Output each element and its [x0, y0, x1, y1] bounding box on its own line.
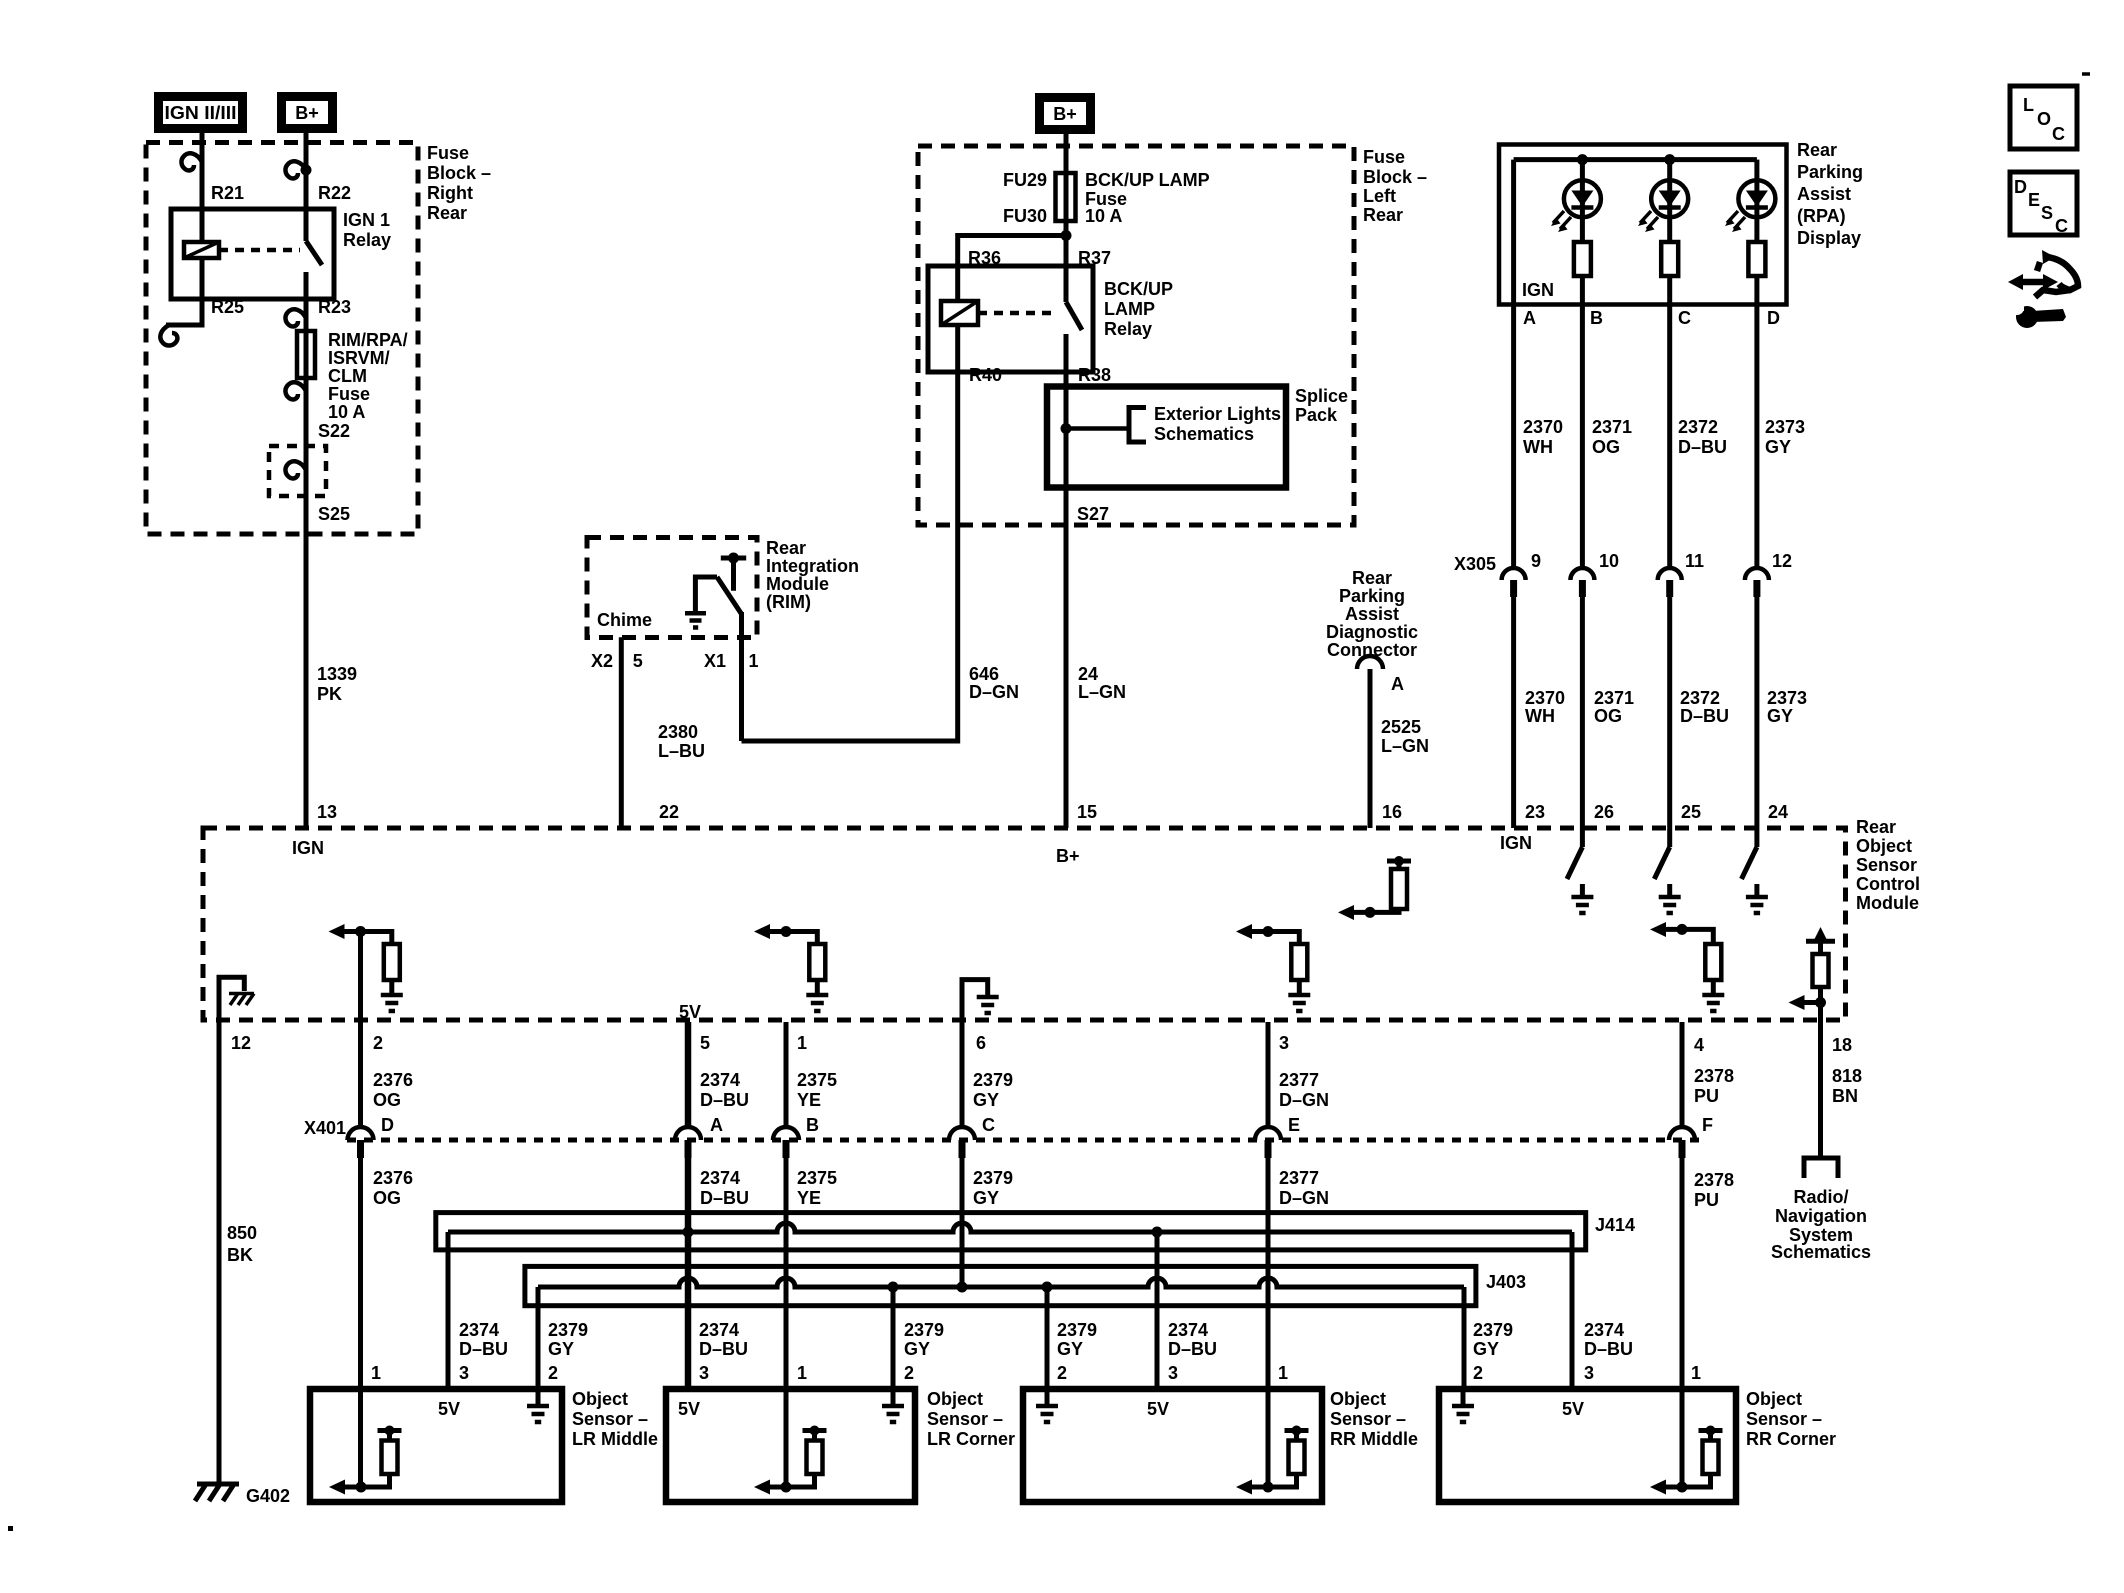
- RIM dashed box: [587, 538, 757, 638]
- wire label 2375 YE upper: [797, 1070, 837, 1110]
- relay IGN 1 switch blade: [306, 241, 322, 265]
- svg-text:PU: PU: [1694, 1086, 1719, 1106]
- svg-text:BCK/UP LAMP: BCK/UP LAMP: [1085, 170, 1210, 190]
- svg-text:2377: 2377: [1279, 1070, 1319, 1090]
- module pin6 internal ground: [962, 980, 999, 1022]
- wire IGN A leg: [1511, 160, 1516, 305]
- svg-text:9: 9: [1531, 551, 1541, 571]
- svg-text:22: 22: [659, 802, 679, 822]
- svg-text:2370: 2370: [1523, 417, 1563, 437]
- svg-text:2379: 2379: [973, 1070, 1013, 1090]
- wire J403 to sensor RR corner pin2: [1462, 1287, 1467, 1389]
- svg-text:5V: 5V: [1147, 1399, 1169, 1419]
- wire label 2376 OG upper: [373, 1070, 413, 1110]
- svg-text:C: C: [1678, 308, 1691, 328]
- wire label 2374 D-BU sensor2: [699, 1320, 748, 1359]
- svg-text:Rear: Rear: [1856, 817, 1896, 837]
- connector X305 pin 9: [1502, 568, 1526, 597]
- svg-text:Schematics: Schematics: [1154, 424, 1254, 444]
- svg-text:1: 1: [371, 1363, 381, 1383]
- svg-text:5: 5: [633, 651, 643, 671]
- svg-text:Sensor –: Sensor –: [1330, 1409, 1406, 1429]
- svg-text:5V: 5V: [679, 1002, 701, 1022]
- svg-text:2374: 2374: [700, 1070, 740, 1090]
- LED 2: [1638, 180, 1688, 232]
- wire label 2379 GY sensor1: [548, 1320, 588, 1359]
- wire 2377 D-GN pin3: [1266, 1022, 1271, 1487]
- svg-text:J403: J403: [1486, 1272, 1526, 1292]
- sensor RR middle box: [1023, 1389, 1322, 1502]
- wire label 2374 D-BU sensor3: [1168, 1320, 1217, 1359]
- svg-text:IGN: IGN: [292, 838, 324, 858]
- svg-text:D–BU: D–BU: [1678, 437, 1727, 457]
- svg-text:FU30: FU30: [1003, 206, 1047, 226]
- tick mark top right: [2082, 72, 2090, 76]
- svg-text:O: O: [2037, 109, 2051, 129]
- wire label 2377 D-GN lower: [1279, 1168, 1329, 1208]
- svg-text:B+: B+: [1053, 104, 1077, 124]
- wire label 2372 D-BU: [1678, 417, 1727, 457]
- svg-text:X2: X2: [591, 651, 613, 671]
- svg-text:ISRVM/: ISRVM/: [328, 348, 390, 368]
- svg-text:1: 1: [749, 651, 759, 671]
- connector row X401 dotted line: [347, 1138, 1700, 1143]
- connector X401 C: [949, 1127, 975, 1158]
- wire relay output R38 down to module pin 15: [1064, 334, 1069, 828]
- svg-text:2374: 2374: [699, 1320, 739, 1340]
- svg-text:Object: Object: [1746, 1389, 1802, 1409]
- svg-text:23: 23: [1525, 802, 1545, 822]
- LED branch D wire: [1754, 160, 1759, 305]
- module output pin2 pulldown: [329, 924, 403, 1011]
- svg-text:Navigation: Navigation: [1775, 1206, 1867, 1226]
- svg-text:2: 2: [1057, 1363, 1067, 1383]
- label Fuse Block Left Rear: [1363, 147, 1427, 225]
- junction bus B: [1577, 154, 1588, 165]
- svg-text:E: E: [2028, 190, 2040, 210]
- svg-text:IGN II/III: IGN II/III: [165, 103, 237, 123]
- resistor B in display: [1574, 242, 1591, 276]
- wire label 646 D-GN: [969, 664, 1019, 702]
- svg-text:C: C: [982, 1115, 995, 1135]
- LOC icon box: [2010, 86, 2077, 149]
- svg-text:Block –: Block –: [427, 163, 491, 183]
- connector hook R25: [160, 325, 177, 346]
- svg-text:Schematics: Schematics: [1771, 1242, 1871, 1262]
- svg-text:OG: OG: [1592, 437, 1620, 457]
- connector X401 F: [1669, 1127, 1695, 1158]
- svg-text:S22: S22: [318, 421, 350, 441]
- svg-text:J414: J414: [1595, 1215, 1635, 1235]
- svg-text:12: 12: [1772, 551, 1792, 571]
- wire J403 to sensor LR middle pin2: [536, 1287, 541, 1389]
- svg-text:D: D: [381, 1115, 394, 1135]
- svg-text:2374: 2374: [1168, 1320, 1208, 1340]
- svg-text:L–GN: L–GN: [1381, 736, 1429, 756]
- svg-text:10: 10: [1599, 551, 1619, 571]
- wire 2525 L-GN down to pin 16: [1368, 669, 1373, 828]
- display internal bus: [1514, 157, 1757, 162]
- relay IGN 1 box: [171, 209, 334, 299]
- wire 2370 WH display A to X305-9: [1511, 305, 1516, 568]
- label Rear Object Sensor Control Module: [1856, 817, 1920, 913]
- svg-text:2378: 2378: [1694, 1066, 1734, 1086]
- junction J403 module pin6: [957, 1282, 968, 1293]
- svg-text:2371: 2371: [1592, 417, 1632, 437]
- connector X305 pin 10: [1570, 568, 1594, 597]
- svg-text:2377: 2377: [1279, 1168, 1319, 1188]
- svg-text:6: 6: [976, 1033, 986, 1053]
- RIM internal ground: [685, 577, 717, 628]
- svg-text:Parking: Parking: [1339, 586, 1405, 606]
- wire RIM X1-1 down and right to 646: [739, 612, 744, 741]
- svg-text:Rear: Rear: [1797, 140, 1837, 160]
- wire label 2371 OG lower: [1594, 688, 1634, 726]
- wire label 2370 WH: [1523, 417, 1563, 457]
- wire label 1339 PK: [317, 664, 357, 704]
- svg-text:S25: S25: [318, 504, 350, 524]
- svg-text:E: E: [1288, 1115, 1300, 1135]
- svg-text:4: 4: [1694, 1035, 1704, 1055]
- svg-text:2: 2: [904, 1363, 914, 1383]
- svg-text:Chime: Chime: [597, 610, 652, 630]
- svg-text:WH: WH: [1523, 437, 1553, 457]
- wire label 2378 PU lower: [1694, 1170, 1734, 1210]
- junction J403 sensor2 pin2: [888, 1282, 899, 1293]
- splice pack box: [1047, 387, 1286, 488]
- svg-text:D–GN: D–GN: [1279, 1188, 1329, 1208]
- svg-text:5V: 5V: [438, 1399, 460, 1419]
- svg-text:Rear: Rear: [1363, 205, 1403, 225]
- fuse RIM/RPA/ISRVM/CLM 10A: [297, 331, 315, 378]
- svg-text:RR Corner: RR Corner: [1746, 1429, 1836, 1449]
- svg-text:2376: 2376: [373, 1168, 413, 1188]
- svg-text:Object: Object: [572, 1389, 628, 1409]
- wire label 2373 GY: [1765, 417, 1805, 457]
- junction bus C: [1664, 154, 1675, 165]
- sensor1 internal pullup: [329, 1426, 402, 1495]
- wire label 2370 WH lower: [1525, 688, 1565, 726]
- relay BCK/UP coil-switch dashed link: [978, 311, 1058, 316]
- svg-text:Splice: Splice: [1295, 386, 1348, 406]
- wrench icon: [2010, 301, 2066, 328]
- relay BCK/UP coil: [941, 301, 978, 325]
- wire 2371 OG X305 to pin 26: [1580, 597, 1585, 828]
- rear object sensor control module dashed box: [203, 828, 1846, 1020]
- svg-text:A: A: [1391, 674, 1404, 694]
- svg-text:1: 1: [797, 1033, 807, 1053]
- svg-text:2380: 2380: [658, 722, 698, 742]
- wire B+ down through fuse and relay switch to S27 and pin 15: [1064, 134, 1069, 302]
- svg-text:B+: B+: [1056, 846, 1080, 866]
- svg-text:Block –: Block –: [1363, 167, 1427, 187]
- resistor C in display: [1661, 242, 1678, 276]
- svg-text:X401: X401: [304, 1118, 346, 1138]
- svg-text:Sensor: Sensor: [1856, 855, 1917, 875]
- label Object Sensor - LR Middle: [572, 1389, 658, 1449]
- wire 2378 PU pin4: [1680, 1022, 1685, 1487]
- connector X401 E: [1255, 1127, 1281, 1158]
- wire label 850 BK: [227, 1223, 257, 1265]
- label Rear Parking Assist (RPA) Display: [1797, 140, 1863, 248]
- svg-text:IGN: IGN: [1500, 833, 1532, 853]
- module pin18 resistor to supply: [1789, 927, 1836, 1020]
- svg-text:2374: 2374: [700, 1168, 740, 1188]
- wire B+ down to relay switch R22: [304, 133, 309, 241]
- svg-text:2372: 2372: [1680, 688, 1720, 708]
- svg-text:WH: WH: [1525, 706, 1555, 726]
- relay IGN 1 coil-switch dashed link: [219, 248, 300, 253]
- svg-text:BCK/UP: BCK/UP: [1104, 279, 1173, 299]
- wire label 2379 GY sensor4: [1473, 1320, 1513, 1359]
- wire 2372 D-BU display C to X305-11: [1667, 305, 1672, 568]
- svg-text:Relay: Relay: [1104, 319, 1152, 339]
- svg-text:D–BU: D–BU: [700, 1090, 749, 1110]
- svg-text:Assist: Assist: [1345, 604, 1399, 624]
- svg-text:CLM: CLM: [328, 366, 367, 386]
- svg-text:Fuse: Fuse: [1363, 147, 1405, 167]
- svg-text:L: L: [2023, 95, 2034, 115]
- connector X305 pin 12: [1745, 568, 1769, 597]
- sensor3 pin2 ground: [1036, 1389, 1058, 1422]
- svg-text:Sensor –: Sensor –: [1746, 1409, 1822, 1429]
- svg-text:OG: OG: [1594, 706, 1622, 726]
- module output pin4 pulldown: [1650, 922, 1724, 1011]
- wire label 24 L-GN: [1078, 664, 1126, 702]
- svg-text:850: 850: [227, 1223, 257, 1243]
- svg-text:10 A: 10 A: [328, 402, 365, 422]
- relay IGN 1 coil: [184, 242, 219, 258]
- sensor4 pin2 ground: [1452, 1389, 1474, 1422]
- junction J414 sensor3 feed: [1152, 1227, 1163, 1238]
- svg-text:B: B: [1590, 308, 1603, 328]
- svg-text:GY: GY: [973, 1188, 999, 1208]
- svg-text:C: C: [2055, 216, 2068, 236]
- sensor3 internal pullup: [1236, 1426, 1309, 1495]
- fuse block right rear dashed box: [146, 143, 418, 535]
- power label IGN II/III: [159, 97, 243, 129]
- svg-text:IGN: IGN: [1522, 280, 1554, 300]
- svg-text:10 A: 10 A: [1085, 206, 1122, 226]
- svg-text:Radio/: Radio/: [1793, 1187, 1848, 1207]
- svg-text:Relay: Relay: [343, 230, 391, 250]
- svg-text:IGN 1: IGN 1: [343, 210, 390, 230]
- label Object Sensor - LR Corner: [927, 1389, 1015, 1449]
- ground G402: [195, 1484, 239, 1501]
- svg-text:2371: 2371: [1594, 688, 1634, 708]
- svg-text:646: 646: [969, 664, 999, 684]
- sensor RR corner box: [1439, 1389, 1736, 1502]
- junction J414 sensor2 feed: [683, 1227, 694, 1238]
- svg-text:2373: 2373: [1765, 417, 1805, 437]
- wire 2372 D-BU X305 to pin 25: [1667, 597, 1672, 828]
- svg-text:GY: GY: [1765, 437, 1791, 457]
- connector X401 B: [773, 1127, 799, 1158]
- svg-text:YE: YE: [797, 1188, 821, 1208]
- wire label 2372 D-BU lower: [1680, 688, 1729, 726]
- svg-text:GY: GY: [904, 1339, 930, 1359]
- svg-text:Display: Display: [1797, 228, 1861, 248]
- svg-text:18: 18: [1832, 1035, 1852, 1055]
- svg-text:Module: Module: [1856, 893, 1919, 913]
- resistor D in display: [1748, 242, 1765, 276]
- wire label 2378 PU upper: [1694, 1066, 1734, 1106]
- svg-text:2379: 2379: [1473, 1320, 1513, 1340]
- connector hook S22: [285, 382, 306, 399]
- svg-text:D: D: [1767, 308, 1780, 328]
- svg-text:LR Middle: LR Middle: [572, 1429, 658, 1449]
- svg-text:L–GN: L–GN: [1078, 682, 1126, 702]
- power label B+ (right rear fuse block): [282, 97, 333, 129]
- svg-text:RR Middle: RR Middle: [1330, 1429, 1418, 1449]
- svg-text:Rear: Rear: [427, 203, 467, 223]
- svg-text:16: 16: [1382, 802, 1402, 822]
- wire label 2379 GY upper: [973, 1070, 1013, 1110]
- svg-text:5V: 5V: [678, 1399, 700, 1419]
- svg-text:Diagnostic: Diagnostic: [1326, 622, 1418, 642]
- svg-text:3: 3: [1279, 1033, 1289, 1053]
- connector X401 A: [675, 1127, 701, 1158]
- connector hook R21: [181, 153, 202, 170]
- wire relay output R23 down through fuse to S25 and pin 13: [304, 272, 309, 828]
- svg-text:Sensor –: Sensor –: [927, 1409, 1003, 1429]
- svg-text:(RIM): (RIM): [766, 592, 811, 612]
- wire label 2373 GY lower: [1767, 688, 1807, 726]
- wire label 2525 L-GN: [1381, 717, 1429, 756]
- svg-text:15: 15: [1077, 802, 1097, 822]
- wire J414 to sensor LR middle pin3: [446, 1232, 451, 1389]
- module switch to ground pin25: [1654, 828, 1680, 913]
- svg-text:3: 3: [699, 1363, 709, 1383]
- sensor2 pin2 ground: [882, 1389, 904, 1422]
- svg-text:1: 1: [1278, 1363, 1288, 1383]
- svg-text:L–BU: L–BU: [658, 741, 705, 761]
- connector hook R22: [285, 161, 306, 178]
- svg-text:Fuse: Fuse: [427, 143, 469, 163]
- RIM internal supply T-bar: [721, 553, 746, 591]
- svg-text:Object: Object: [1856, 836, 1912, 856]
- wire 2376 OG pin2 to sensor LR middle pin1: [358, 932, 363, 1488]
- relay BCK/UP switch blade: [1066, 302, 1082, 330]
- wire to exterior lights bracket: [1066, 426, 1129, 431]
- svg-text:25: 25: [1681, 802, 1701, 822]
- wire 2371 OG display B to X305-10: [1580, 305, 1585, 568]
- svg-text:Right: Right: [427, 183, 473, 203]
- svg-text:GY: GY: [1473, 1339, 1499, 1359]
- sensor2 internal pullup: [754, 1426, 827, 1495]
- svg-text:OG: OG: [373, 1090, 401, 1110]
- svg-text:26: 26: [1594, 802, 1614, 822]
- svg-text:D–GN: D–GN: [1279, 1090, 1329, 1110]
- wire J414 to sensor RR middle pin3: [1155, 1232, 1160, 1389]
- wire label 818 BN: [1832, 1066, 1862, 1106]
- wire label 2374 D-BU lower: [700, 1168, 749, 1208]
- label Radio/Navigation System Schematics: [1771, 1187, 1871, 1262]
- svg-text:R22: R22: [318, 183, 351, 203]
- svg-text:X1: X1: [704, 651, 726, 671]
- svg-text:A: A: [710, 1115, 723, 1135]
- wire branch to relay coil R36: [958, 236, 1066, 302]
- RPA display box: [1499, 145, 1787, 305]
- svg-text:3: 3: [1584, 1363, 1594, 1383]
- wire label 2380 L-BU: [658, 722, 705, 761]
- svg-text:2379: 2379: [1057, 1320, 1097, 1340]
- svg-text:2: 2: [548, 1363, 558, 1383]
- wire label 2379 GY lower: [973, 1168, 1013, 1208]
- svg-text:818: 818: [1832, 1066, 1862, 1086]
- fuse BCK/UP LAMP FU29/FU30: [1056, 173, 1076, 221]
- svg-text:Object: Object: [1330, 1389, 1386, 1409]
- svg-text:D–GN: D–GN: [969, 682, 1019, 702]
- svg-text:YE: YE: [797, 1090, 821, 1110]
- svg-text:2375: 2375: [797, 1070, 837, 1090]
- svg-text:2370: 2370: [1525, 688, 1565, 708]
- svg-text:R38: R38: [1078, 365, 1111, 385]
- wire 818 BN pin18 to radio: [1818, 1020, 1823, 1158]
- wire label 2379 GY sensor3: [1057, 1320, 1097, 1359]
- module output pin3 pulldown: [1236, 924, 1310, 1011]
- wire 2375 YE pin1: [784, 1022, 789, 1487]
- svg-text:GY: GY: [548, 1339, 574, 1359]
- sensor1 pin2 ground: [527, 1389, 549, 1422]
- label IGN 1 Relay: [343, 210, 391, 250]
- svg-text:2373: 2373: [1767, 688, 1807, 708]
- svg-text:A: A: [1523, 308, 1536, 328]
- svg-text:R40: R40: [969, 365, 1002, 385]
- svg-text:2379: 2379: [973, 1168, 1013, 1188]
- svg-text:D–BU: D–BU: [1168, 1339, 1217, 1359]
- LED branch B wire: [1580, 160, 1585, 305]
- wire R40 646 D-GN down and left to RIM: [742, 325, 958, 741]
- svg-text:Exterior Lights: Exterior Lights: [1154, 404, 1281, 424]
- splice bus J403 outline: [525, 1266, 1476, 1305]
- svg-text:1339: 1339: [317, 664, 357, 684]
- junction below fuse: [1061, 230, 1072, 241]
- svg-text:Pack: Pack: [1295, 405, 1338, 425]
- svg-text:BN: BN: [1832, 1086, 1858, 1106]
- svg-text:2374: 2374: [1584, 1320, 1624, 1340]
- svg-text:Control: Control: [1856, 874, 1920, 894]
- svg-text:S: S: [2041, 203, 2053, 223]
- wire 2370 WH X305 to pin 23: [1511, 597, 1516, 828]
- svg-text:LR Corner: LR Corner: [927, 1429, 1015, 1449]
- svg-text:X305: X305: [1454, 554, 1496, 574]
- junction S27 in splice pack: [1061, 423, 1072, 434]
- svg-text:Module: Module: [766, 574, 829, 594]
- svg-text:D–BU: D–BU: [1680, 706, 1729, 726]
- svg-text:3: 3: [459, 1363, 469, 1383]
- off-page bracket exterior lights: [1129, 408, 1146, 443]
- svg-text:2372: 2372: [1678, 417, 1718, 437]
- svg-text:B: B: [806, 1115, 819, 1135]
- relay BCK/UP LAMP box: [928, 266, 1093, 372]
- svg-text:Integration: Integration: [766, 556, 859, 576]
- svg-text:Rear: Rear: [1352, 568, 1392, 588]
- module input pin16 resistor to supply: [1338, 856, 1411, 920]
- svg-text:D: D: [2014, 177, 2027, 197]
- fuse block left rear dashed box: [918, 146, 1354, 525]
- label RIM/RPA/ISRVM/CLM Fuse 10 A: [328, 330, 408, 422]
- junction R22: [301, 165, 312, 176]
- svg-text:Object: Object: [927, 1389, 983, 1409]
- svg-text:R23: R23: [318, 297, 351, 317]
- svg-text:1: 1: [797, 1363, 807, 1383]
- svg-text:2376: 2376: [373, 1070, 413, 1090]
- wire 2374 D-BU 5V feed pin5: [685, 1022, 692, 1389]
- svg-text:BK: BK: [227, 1245, 253, 1265]
- LED 1: [1551, 180, 1601, 232]
- label Rear Parking Assist Diagnostic Connector: [1326, 568, 1418, 660]
